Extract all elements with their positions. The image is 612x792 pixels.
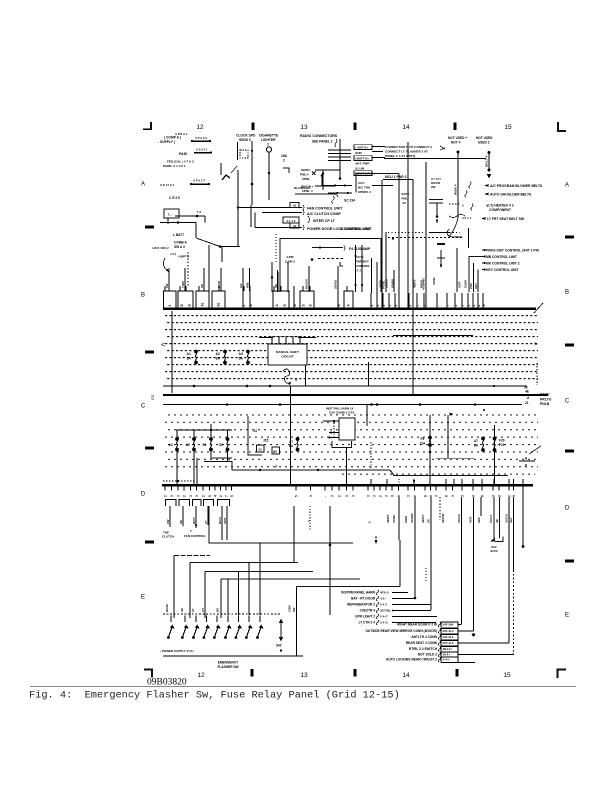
pin stub 483 bbox=[482, 293, 486, 308]
sp1 drop bbox=[167, 218, 169, 224]
value box 51 bbox=[272, 447, 280, 454]
block1 brace 598.5 bbox=[376, 596, 378, 601]
svg-text:• POWER SUPPLY 2½4⋆: • POWER SUPPLY 2½4⋆ bbox=[160, 649, 194, 653]
dotted col x426b bbox=[425, 568, 427, 582]
pin stub 395 bbox=[394, 293, 398, 308]
drop wire x309 bbox=[308, 266, 310, 292]
diagonal tie bbox=[529, 446, 541, 454]
cell feed wire bbox=[337, 286, 339, 291]
tag box pdl bbox=[290, 223, 299, 228]
band drop x368 bbox=[368, 362, 370, 386]
svg-text:L BATT: L BATT bbox=[173, 233, 184, 237]
cell feed wire bbox=[218, 286, 220, 291]
svg-text:3⋆4⋆: 3⋆4⋆ bbox=[443, 658, 450, 662]
spade base bbox=[437, 243, 445, 245]
svg-text:ANTI-TH 4 CONN: ANTI-TH 4 CONN bbox=[411, 635, 437, 639]
cell feed wire bbox=[293, 286, 295, 291]
pin stub 447 bbox=[446, 293, 450, 308]
vert feed join bbox=[254, 213, 256, 228]
center block outline bbox=[280, 239, 381, 293]
svg-text:3: 3 bbox=[385, 495, 389, 497]
svg-text:3: 3 bbox=[177, 495, 181, 497]
bus C pin 493 bbox=[492, 486, 496, 497]
svg-text:PNL: PNL bbox=[402, 197, 408, 201]
svg-text:NOT USED: NOT USED bbox=[476, 136, 493, 140]
pin stub a1 bbox=[242, 291, 246, 308]
drop wire bbox=[494, 425, 496, 484]
bus C pin 209.5 bbox=[208, 486, 212, 497]
svg-text:3: 3 bbox=[367, 495, 371, 497]
wire SP2 bbox=[191, 140, 211, 142]
svg-text:COMB A: COMB A bbox=[174, 241, 188, 245]
bottom-left corner crop mark bbox=[144, 670, 152, 678]
band2 arrow bbox=[449, 413, 453, 416]
fuse F8 node bbox=[429, 451, 432, 454]
svg-text:LT FRT SEAT BELT SW: LT FRT SEAT BELT SW bbox=[487, 217, 525, 221]
route wire F bbox=[297, 586, 401, 588]
svg-text:2Y: 2Y bbox=[204, 520, 208, 524]
svg-text:3R/4: 3R/4 bbox=[223, 518, 227, 524]
4way arrow bbox=[440, 146, 445, 150]
coil squiggle SC1 bbox=[283, 369, 291, 383]
svg-text:F21: F21 bbox=[499, 443, 505, 447]
light switch drop bbox=[346, 448, 348, 485]
route node x330 bbox=[329, 544, 332, 547]
svg-text:2: 2 bbox=[164, 495, 168, 497]
svg-text:A4: A4 bbox=[169, 443, 173, 447]
fuse 53 bbox=[226, 437, 230, 451]
bus junction bbox=[279, 403, 282, 406]
svg-text:0: 0 bbox=[429, 495, 433, 497]
svg-text:CONTROL: CONTROL bbox=[355, 264, 370, 268]
svg-text:4B/GY: 4B/GY bbox=[413, 279, 417, 288]
ctrl arrow 2 bbox=[481, 255, 485, 257]
wire SP2 end2 bbox=[209, 140, 211, 142]
svg-text:2: 2 bbox=[283, 159, 285, 163]
relay pin bbox=[271, 337, 273, 344]
tag box inter bbox=[283, 217, 299, 223]
bus C pin 368 bbox=[367, 486, 371, 497]
svg-text:BLOWER∕2: BLOWER∕2 bbox=[294, 186, 310, 190]
grid tick bottom bbox=[251, 669, 254, 677]
light switch node2 bbox=[328, 436, 330, 438]
bend to branch bbox=[449, 218, 458, 237]
svg-text:25F-4L3: 25F-4L3 bbox=[443, 629, 454, 633]
svg-text:LT CTR 2 4: LT CTR 2 4 bbox=[359, 621, 376, 625]
svg-text:5: 5 bbox=[230, 495, 234, 497]
grid dash left bbox=[145, 447, 154, 450]
switch bottom rail bbox=[163, 655, 303, 657]
drop x400b bbox=[399, 540, 401, 587]
flasher arrow both ends bbox=[279, 619, 283, 642]
cell feed wire bbox=[273, 286, 275, 291]
bottom-right corner crop mark bbox=[558, 670, 567, 679]
pin stub a2 bbox=[249, 291, 253, 308]
wire BK/W end node bbox=[488, 169, 491, 172]
svg-text:3BK: 3BK bbox=[477, 516, 481, 523]
svg-text:2: 2 bbox=[454, 305, 458, 307]
svg-text:F4 1150 AMP: F4 1150 AMP bbox=[349, 247, 371, 251]
svg-text:2Y/BK: 2Y/BK bbox=[379, 279, 383, 288]
comb tail drop bbox=[221, 247, 223, 262]
bus C pin 462 bbox=[461, 486, 465, 497]
pin stub 462 bbox=[461, 293, 465, 308]
svg-text:3B: 3B bbox=[274, 284, 278, 288]
bus C feed tick bbox=[481, 479, 483, 485]
svg-text:2Y/GY: 2Y/GY bbox=[489, 514, 493, 523]
conn wire 3B bbox=[182, 506, 184, 526]
belt arrow 4 bbox=[481, 217, 485, 220]
svg-text:FED./CAL./ 4 7 A 3: FED./CAL./ 4 7 A 3 bbox=[167, 160, 194, 164]
svg-text:4F3⋆2: 4F3⋆2 bbox=[380, 591, 389, 595]
svg-text:25F-4L2: 25F-4L2 bbox=[443, 641, 454, 645]
staircase node bbox=[259, 469, 261, 471]
stipple row above bus C bbox=[340, 472, 535, 479]
svg-text:A3: A3 bbox=[239, 352, 243, 356]
svg-text:3 4⋆3: 3 4⋆3 bbox=[380, 621, 388, 625]
dashed drop x440 bbox=[439, 497, 441, 520]
pin stub b1 bbox=[293, 291, 297, 308]
svg-text:COMPONENT: COMPONENT bbox=[489, 208, 512, 212]
conn wire 2Y bbox=[207, 506, 209, 525]
drop x523 bbox=[522, 486, 524, 546]
svg-text:3: 3 bbox=[345, 495, 349, 497]
pin stub 437 bbox=[436, 293, 440, 308]
bus C feed tick bbox=[493, 479, 495, 485]
radio box mid drop bbox=[381, 180, 383, 308]
svg-text:3Y/BK: 3Y/BK bbox=[392, 514, 396, 523]
panel inner bus 3 bbox=[163, 404, 522, 406]
svg-text:BK/LT 4: BK/LT 4 bbox=[485, 156, 489, 167]
sp1 node bbox=[196, 215, 199, 218]
svg-text:RIGHT REAR DOOR P 2 W: RIGHT REAR DOOR P 2 W bbox=[397, 623, 437, 627]
svg-text:F20: F20 bbox=[499, 439, 505, 443]
obd arrow2b bbox=[344, 192, 348, 194]
svg-text:7: 7 bbox=[416, 305, 420, 307]
svg-text:x: x bbox=[408, 305, 412, 307]
bus C pin 215 bbox=[214, 486, 218, 497]
svg-text:A P A 2 S: A P A 2 S bbox=[195, 136, 207, 140]
svg-text:RT/RL 2 4 SWITCH: RT/RL 2 4 SWITCH bbox=[409, 647, 438, 651]
connector cell P1 bbox=[164, 291, 177, 308]
panel bottom bus bbox=[162, 484, 533, 486]
conn wire arrow bbox=[195, 525, 197, 529]
bus junction bbox=[419, 403, 422, 406]
step link bbox=[340, 262, 343, 266]
svg-text:GRN/×: GRN/× bbox=[301, 168, 311, 172]
pin stub c1 bbox=[337, 291, 341, 308]
svg-text:CAV CONN 3 CAV: CAV CONN 3 CAV bbox=[329, 411, 354, 415]
svg-text:4B: 4B bbox=[495, 519, 499, 523]
pin stub 424 bbox=[423, 293, 427, 308]
bus C pin 178 bbox=[177, 486, 181, 497]
svg-text:OUTSIDE REAR VIEW MIRROR CONN: OUTSIDE REAR VIEW MIRROR CONN (4DOOR) bbox=[365, 629, 437, 633]
svg-text:53: 53 bbox=[219, 443, 223, 447]
value box 52 bbox=[257, 445, 265, 452]
radio wire row2 bbox=[372, 151, 383, 153]
svg-text:REAR SEAT 4 CONN: REAR SEAT 4 CONN bbox=[406, 641, 438, 645]
conn wire 3R/4 bbox=[226, 506, 228, 540]
svg-text:J4: J4 bbox=[253, 429, 257, 433]
wire x188 dashed bbox=[187, 252, 189, 287]
bus C pin 165 bbox=[164, 486, 168, 497]
radio box right drop bbox=[398, 174, 400, 309]
svg-text:AUTO LOCKING REAR CIRCUIT 2: AUTO LOCKING REAR CIRCUIT 2 bbox=[386, 658, 437, 662]
drop x399 bbox=[398, 497, 400, 540]
svg-text:SW A 3: SW A 3 bbox=[174, 245, 185, 249]
svg-text:3Y/GN: 3Y/GN bbox=[457, 514, 461, 523]
svg-text:P4167: P4167 bbox=[540, 393, 550, 397]
route vert x296b bbox=[296, 587, 298, 616]
bus C pin 392 bbox=[391, 486, 395, 497]
fan line junction bbox=[237, 206, 239, 208]
svg-text:2: 2 bbox=[379, 495, 383, 497]
svg-text:2 4⋆7: 2 4⋆7 bbox=[380, 615, 388, 619]
see panel squiggle bbox=[335, 139, 337, 147]
route wire A bbox=[209, 506, 353, 543]
svg-text:14: 14 bbox=[402, 124, 410, 131]
long drop wire bbox=[290, 386, 292, 485]
svg-text:+BATT B+: +BATT B+ bbox=[355, 157, 370, 161]
svg-text:13: 13 bbox=[300, 672, 308, 679]
drop wire x272 bbox=[271, 262, 273, 292]
block2 wire 654.5 bbox=[458, 654, 514, 656]
svg-text:3: 3 bbox=[498, 495, 502, 497]
grid tick bottom bbox=[354, 669, 357, 677]
block1 brace 616.5 bbox=[376, 614, 378, 619]
wire SP2 end bbox=[191, 140, 193, 142]
svg-text:BAT - RT DOOR: BAT - RT DOOR bbox=[351, 597, 376, 601]
svg-text:2W: 2W bbox=[165, 283, 169, 288]
bus C pin 353 bbox=[352, 486, 356, 497]
svg-text:4Y/R: 4Y/R bbox=[469, 516, 473, 523]
svg-text:2V: 2V bbox=[403, 201, 407, 205]
svg-text:ANT. PWR: ANT. PWR bbox=[355, 162, 370, 166]
ctrl arrow 1 bbox=[481, 249, 485, 251]
svg-text:<: < bbox=[161, 342, 165, 349]
vert feed left2 bbox=[250, 205, 252, 227]
svg-text:BK/R: BK/R bbox=[217, 280, 221, 288]
drop x513 dash2 bbox=[513, 570, 515, 655]
svg-text:7: 7 bbox=[446, 305, 450, 307]
pin stub 468 bbox=[467, 293, 471, 308]
bus junction bbox=[376, 403, 379, 406]
wire SP30 end bbox=[190, 183, 192, 185]
svg-text:3W: 3W bbox=[292, 607, 296, 612]
svg-text:UPR LIGHT 2: UPR LIGHT 2 bbox=[355, 615, 375, 619]
cell feed wire bbox=[302, 286, 304, 291]
drop x415 bbox=[414, 497, 416, 598]
fuse drop bbox=[193, 451, 195, 484]
bus C feed tick bbox=[370, 479, 372, 485]
clock node bbox=[251, 183, 254, 186]
bus C pin 509 bbox=[508, 486, 512, 497]
block2 brace 643 bbox=[438, 641, 440, 646]
svg-text:MK CONTROL UNIT 2: MK CONTROL UNIT 2 bbox=[486, 262, 520, 266]
contact feed bbox=[238, 572, 240, 616]
svg-text:3: 3 bbox=[195, 495, 199, 497]
svg-text:3: 3 bbox=[512, 495, 516, 497]
wire x209 drop bbox=[208, 245, 210, 291]
ac brace bbox=[303, 210, 304, 215]
drop x513 dashed bbox=[513, 497, 515, 570]
bus C pin 380 bbox=[379, 486, 383, 497]
conn wire 2W bbox=[169, 506, 171, 527]
svg-text:4 2⋆: 4 2⋆ bbox=[380, 597, 386, 601]
obd node1 bbox=[321, 174, 324, 177]
contact feed bbox=[227, 579, 229, 615]
route vert x330 bbox=[329, 506, 331, 615]
belt brace 3 bbox=[471, 204, 473, 211]
fuse A3 bbox=[246, 350, 250, 365]
check switch bbox=[222, 175, 230, 180]
f4 node bbox=[319, 246, 321, 248]
comb drop bbox=[195, 223, 197, 239]
svg-text:-: - bbox=[436, 305, 440, 306]
svg-text:( COMP A ): ( COMP A ) bbox=[164, 136, 181, 140]
block1 wire 598.5 bbox=[392, 598, 415, 600]
clock wire bbox=[251, 141, 253, 205]
dashed heavy bbox=[388, 237, 462, 239]
bus C pin 171.5 bbox=[170, 486, 174, 497]
svg-text:A2: A2 bbox=[293, 204, 297, 208]
connector cell P7 bbox=[344, 291, 353, 308]
belt arrow 1 bbox=[484, 184, 488, 187]
bus C pin 408 bbox=[407, 486, 411, 497]
svg-text:LIGHTER: LIGHTER bbox=[261, 138, 276, 142]
drop x473 bbox=[473, 497, 475, 631]
bus C pin 332 bbox=[331, 486, 335, 497]
flasher switch contact 1 bbox=[167, 616, 174, 639]
ctrl arrow 4 bbox=[481, 268, 485, 270]
svg-text:ACC: ACC bbox=[358, 181, 365, 185]
curve arrow left bbox=[163, 258, 167, 270]
obd vert1 bbox=[321, 176, 323, 186]
svg-text:PANEL F 4 AT 2 RTQ: PANEL F 4 AT 2 RTQ bbox=[385, 154, 416, 158]
svg-text:F8: F8 bbox=[421, 437, 425, 441]
svg-text:NOT SOLD 2: NOT SOLD 2 bbox=[418, 653, 437, 657]
feeder riser bbox=[210, 424, 212, 430]
grn drop bbox=[322, 170, 324, 190]
connector cell P5 bbox=[273, 291, 289, 308]
fan brace bbox=[303, 205, 304, 210]
wire comb feed bbox=[160, 222, 196, 224]
ctrl arrow 3 bbox=[481, 262, 485, 264]
svg-text:C: C bbox=[141, 403, 146, 409]
svg-text:3: 3 bbox=[331, 495, 335, 497]
svg-text:12A: 12A bbox=[420, 442, 427, 446]
svg-text:Y/BK: Y/BK bbox=[181, 280, 185, 288]
svg-text:GRY: GRY bbox=[474, 283, 478, 289]
bus C arrow bbox=[413, 480, 415, 484]
svg-text:A P A 3 T: A P A 3 T bbox=[193, 179, 205, 183]
wire bk end bbox=[334, 184, 336, 186]
svg-text:4CC2: 4CC2 bbox=[490, 549, 498, 553]
block2 tag box 25F-4L3 bbox=[441, 628, 458, 633]
connector socket bbox=[193, 500, 202, 507]
wire sp1 out bbox=[175, 215, 205, 217]
radio bus vert bbox=[339, 139, 341, 178]
mcu drop wire bbox=[412, 180, 414, 309]
wire x377 up bbox=[376, 262, 378, 293]
obd arrow2a bbox=[337, 192, 341, 194]
svg-text:12: 12 bbox=[196, 124, 204, 131]
pin stub 383 bbox=[382, 293, 386, 308]
wire bend bbox=[248, 416, 262, 455]
svg-text:2: 2 bbox=[183, 495, 187, 497]
wire pair down a bbox=[355, 245, 357, 292]
fuse lead top bbox=[210, 430, 212, 438]
svg-text:EMERGENCY: EMERGENCY bbox=[218, 661, 239, 665]
svg-text:3: 3 bbox=[373, 495, 377, 497]
lone down arrow bbox=[375, 540, 378, 545]
pin stub 478 bbox=[477, 293, 481, 308]
svg-text:FAN CONTROL UNIT: FAN CONTROL UNIT bbox=[307, 207, 343, 211]
bus C feed tick bbox=[522, 479, 524, 485]
wire mid node bbox=[392, 237, 394, 239]
svg-text:15: 15 bbox=[503, 672, 511, 679]
svg-text:BATT: BATT bbox=[402, 192, 410, 196]
grid tick bottom bbox=[456, 669, 459, 677]
ctrl wire 457 bbox=[456, 248, 458, 292]
block1 wire 604.5 bbox=[392, 604, 431, 606]
block2 brace 631 bbox=[438, 629, 440, 634]
bus C pin 226 bbox=[225, 486, 229, 497]
block1 brace 610.5 bbox=[376, 608, 378, 613]
block2 brace 649 bbox=[438, 647, 440, 652]
svg-text:3BK/W: 3BK/W bbox=[441, 513, 445, 523]
svg-text:52: 52 bbox=[258, 448, 262, 452]
bus C pin 414.5 bbox=[413, 486, 417, 497]
svg-text:15: 15 bbox=[504, 124, 512, 131]
svg-text:A 5 A 4 1: A 5 A 4 1 bbox=[196, 148, 208, 152]
dotted col x276 bbox=[275, 234, 277, 262]
wire x383 up bbox=[383, 292, 385, 293]
svg-text:FAN CONTROL: FAN CONTROL bbox=[184, 534, 206, 538]
belt brace 1 bbox=[469, 182, 471, 189]
batt wire x426 bbox=[425, 162, 427, 308]
drop x461 bbox=[461, 497, 463, 625]
cell feed wire bbox=[280, 286, 282, 291]
block2 brace 624.5 bbox=[438, 622, 440, 627]
svg-text:34Z: 34Z bbox=[276, 644, 282, 648]
svg-text:2: 2 bbox=[168, 305, 172, 307]
terminal bar bbox=[210, 457, 232, 459]
svg-text:3: 3 bbox=[467, 305, 471, 307]
svg-text:2Y: 2Y bbox=[191, 608, 195, 612]
svg-text:CIRCUIT: CIRCUIT bbox=[281, 355, 294, 359]
radio rung bbox=[328, 160, 351, 162]
bus C pin 325 bbox=[324, 486, 328, 497]
svg-text:W/BK 4: W/BK 4 bbox=[454, 184, 458, 195]
svg-text:4BR/Y: 4BR/Y bbox=[386, 514, 390, 523]
wire grn bbox=[315, 169, 340, 171]
door wire arrow bbox=[436, 220, 438, 224]
fuse lead top bbox=[227, 430, 229, 438]
cell feed wire bbox=[185, 286, 187, 291]
fuse 51 bbox=[209, 437, 213, 451]
svg-text:A5: A5 bbox=[186, 443, 190, 447]
ctrl bracket bbox=[469, 257, 483, 293]
route wire B drop bbox=[173, 556, 175, 619]
block1 wire 622.5 bbox=[392, 622, 436, 624]
svg-text:SENS 3: SENS 3 bbox=[239, 138, 251, 142]
tag box fan bbox=[290, 203, 299, 208]
relay pin top bar bbox=[270, 336, 302, 338]
svg-text:A L 4 F: A L 4 F bbox=[286, 219, 295, 223]
cell feed wire bbox=[203, 286, 205, 291]
svg-text:NOT 4: NOT 4 bbox=[451, 141, 461, 145]
